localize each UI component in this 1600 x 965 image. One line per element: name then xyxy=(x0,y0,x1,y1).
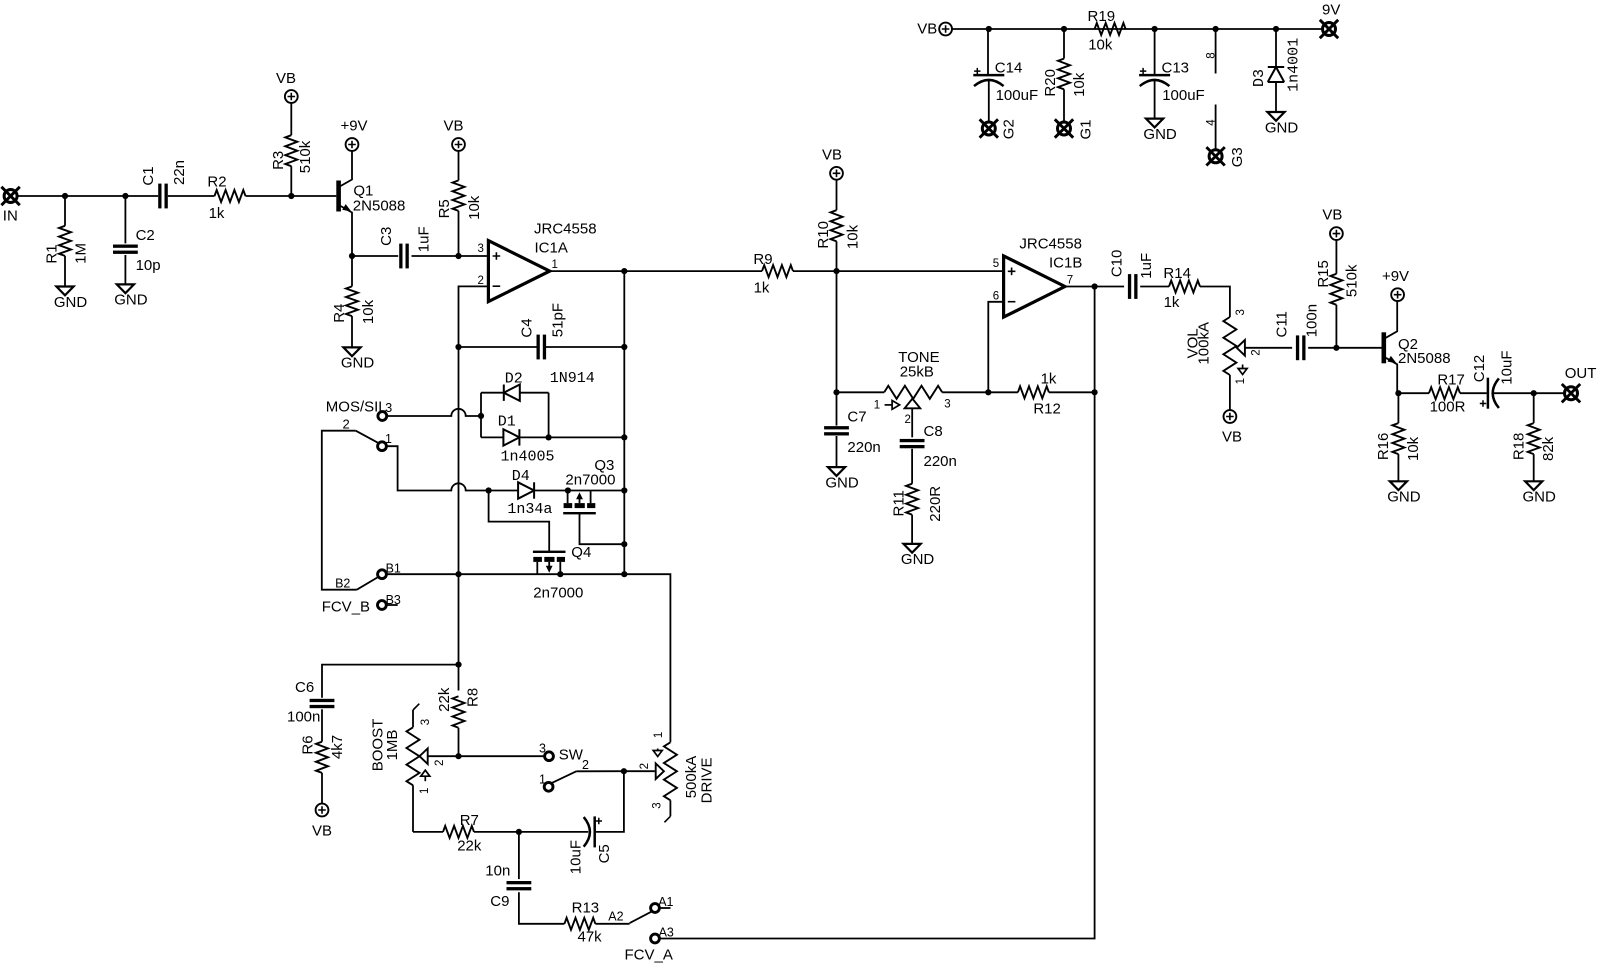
svg-text:D1: D1 xyxy=(498,414,516,431)
svg-text:22n: 22n xyxy=(171,160,188,185)
svg-text:3: 3 xyxy=(477,243,483,255)
junction node C4 left xyxy=(455,344,461,350)
svg-text:1: 1 xyxy=(653,732,665,738)
junction node Q3 source xyxy=(565,487,571,493)
IN input pad terminal xyxy=(1,187,19,225)
wire xyxy=(321,709,323,741)
svg-text:GND: GND xyxy=(341,355,375,372)
junction node B1/-in net xyxy=(455,571,461,577)
resistor R13 47k xyxy=(564,900,602,946)
wire xyxy=(1275,29,1277,67)
wire xyxy=(413,831,443,833)
wire xyxy=(1063,89,1065,122)
svg-text:1n34a: 1n34a xyxy=(507,501,552,518)
svg-text:1k: 1k xyxy=(1041,370,1057,387)
svg-text:FCV_A: FCV_A xyxy=(625,947,673,964)
svg-text:25kB: 25kB xyxy=(900,364,934,381)
junction node pin8 stub xyxy=(1213,26,1219,32)
svg-text:R10: R10 xyxy=(815,221,832,249)
wire xyxy=(1063,29,1065,59)
svg-text:VB: VB xyxy=(1322,207,1342,224)
svg-text:10k: 10k xyxy=(360,299,377,324)
svg-text:3: 3 xyxy=(944,399,950,411)
wire xyxy=(352,255,398,257)
wire diode box right vertical xyxy=(548,393,550,438)
diode D4 1n34a xyxy=(507,468,552,518)
+9V power terminal above Q2 xyxy=(1382,268,1409,301)
svg-text:C14: C14 xyxy=(995,60,1023,77)
svg-text:3: 3 xyxy=(652,802,664,808)
svg-text:2: 2 xyxy=(477,275,483,287)
junction node TONE3/R12/IC1B -in xyxy=(985,389,991,395)
wire R12 row xyxy=(988,391,1018,393)
svg-text:22k: 22k xyxy=(457,837,482,854)
junction node IC1B out xyxy=(1092,283,1098,289)
svg-text:R3: R3 xyxy=(270,151,287,170)
wire Q3 gate xyxy=(580,512,625,544)
capacitor C10 1uF xyxy=(1109,250,1156,299)
svg-text:VB: VB xyxy=(276,70,296,87)
svg-text:R1: R1 xyxy=(43,244,60,263)
wire pin1 to D4 with hop xyxy=(386,446,488,490)
svg-text:JRC4558: JRC4558 xyxy=(1019,236,1082,253)
svg-text:R9: R9 xyxy=(753,251,772,268)
wire xyxy=(942,391,988,393)
G2 pad terminal xyxy=(980,119,1018,139)
resistor R6 4k7 xyxy=(300,735,347,773)
switch FCV_A lever A2 xyxy=(608,910,651,924)
resistor R5 10k xyxy=(436,151,483,256)
svg-text:100kA: 100kA xyxy=(1196,322,1213,365)
wire xyxy=(518,832,520,879)
switch FCV_A pin A3 xyxy=(625,926,674,964)
wire xyxy=(793,270,1004,272)
wire xyxy=(1460,392,1487,394)
VB power terminal supply rail xyxy=(917,21,952,38)
wire xyxy=(549,436,625,438)
svg-text:C6: C6 xyxy=(295,679,314,696)
wire Q4 gate xyxy=(489,491,550,552)
junction node D1 wire/rail xyxy=(621,434,627,440)
svg-text:10k: 10k xyxy=(1071,72,1088,97)
svg-text:C7: C7 xyxy=(847,409,866,426)
wire xyxy=(624,270,762,272)
svg-text:IN: IN xyxy=(3,208,18,225)
svg-text:1n4001: 1n4001 xyxy=(1286,38,1303,92)
wire op-amp output xyxy=(550,270,625,272)
svg-text:R19: R19 xyxy=(1088,8,1116,25)
wire xyxy=(519,892,565,924)
wire IC1B -in xyxy=(988,302,1003,393)
svg-text:2: 2 xyxy=(582,758,589,772)
svg-text:C4: C4 xyxy=(518,318,535,337)
wire xyxy=(911,515,913,544)
wire xyxy=(568,490,591,492)
wire xyxy=(988,80,990,122)
svg-text:R20: R20 xyxy=(1042,69,1059,97)
svg-text:2: 2 xyxy=(434,760,446,766)
svg-text:1uF: 1uF xyxy=(416,226,433,252)
IC power pin 4 stub xyxy=(1205,105,1217,151)
wire xyxy=(596,771,624,832)
svg-text:SW: SW xyxy=(559,746,584,763)
svg-text:GND: GND xyxy=(54,294,88,311)
wire BOOST wiper xyxy=(428,755,545,757)
op-amp IC1A JRC4558 xyxy=(477,221,596,302)
wire xyxy=(458,728,460,756)
svg-text:8: 8 xyxy=(1205,52,1217,58)
svg-text:GND: GND xyxy=(114,292,148,309)
resistor R14 1k xyxy=(1163,265,1200,311)
junction node IC1A out xyxy=(621,268,627,274)
wire xyxy=(481,436,503,438)
switch MOS/SIL pin 3 xyxy=(326,399,392,421)
svg-text:VB: VB xyxy=(312,822,332,839)
junction node R5/op-amp +in xyxy=(455,253,461,259)
svg-text:D3: D3 xyxy=(1251,69,1268,87)
svg-text:1M: 1M xyxy=(73,243,90,264)
resistor R20 10k xyxy=(1042,59,1088,97)
resistor R4 10k xyxy=(331,256,377,347)
diode D2 1N914 xyxy=(504,370,595,401)
ground below C2 xyxy=(114,284,148,308)
resistor R10 10k xyxy=(815,180,861,271)
wire FCV_A to tone stage xyxy=(659,287,1094,939)
svg-text:3: 3 xyxy=(1235,309,1247,315)
svg-text:C8: C8 xyxy=(924,423,943,440)
svg-text:3: 3 xyxy=(420,719,432,725)
wire xyxy=(17,195,158,197)
svg-text:10k: 10k xyxy=(1405,436,1422,461)
capacitor C8 220n xyxy=(900,423,957,470)
junction node rail/Q4 wire xyxy=(621,571,627,577)
switch FCV_A pin A1 xyxy=(651,895,674,912)
VB power terminal above R10 xyxy=(822,146,843,179)
svg-text:G1: G1 xyxy=(1078,119,1095,139)
G3 pad terminal xyxy=(1206,147,1246,167)
svg-text:2N5088: 2N5088 xyxy=(353,198,406,215)
ground below R16 xyxy=(1387,481,1421,505)
junction node switch3/diode box xyxy=(478,413,484,419)
svg-text:510k: 510k xyxy=(297,140,314,173)
switch FCV_B lever B1-B2 xyxy=(335,562,401,591)
svg-text:D2: D2 xyxy=(505,370,523,387)
svg-text:C13: C13 xyxy=(1162,60,1190,77)
junction node D1/box right xyxy=(546,434,552,440)
svg-text:10n: 10n xyxy=(485,863,510,880)
transistor Q2 2N5088 xyxy=(1382,301,1451,393)
ground below R1 xyxy=(54,287,88,311)
svg-text:1k: 1k xyxy=(1164,294,1180,311)
wire xyxy=(836,436,838,467)
wire op-amp inverting input xyxy=(459,286,489,347)
svg-text:1: 1 xyxy=(1235,378,1247,384)
svg-text:220n: 220n xyxy=(847,439,880,456)
junction node C6 tee xyxy=(455,662,461,668)
wire xyxy=(520,392,549,394)
svg-text:C11: C11 xyxy=(1274,311,1291,337)
wire xyxy=(459,346,538,348)
capacitor C9 10n xyxy=(485,863,531,910)
svg-text:R14: R14 xyxy=(1163,265,1191,282)
svg-text:1N914: 1N914 xyxy=(550,370,595,387)
svg-text:2n7000: 2n7000 xyxy=(533,585,583,602)
9V pad terminal xyxy=(1320,1,1341,38)
transistor Q4 2n7000 xyxy=(533,544,591,602)
svg-text:C12: C12 xyxy=(1471,355,1488,383)
svg-text:10k: 10k xyxy=(844,224,861,249)
svg-text:100uF: 100uF xyxy=(996,87,1039,104)
svg-text:R16: R16 xyxy=(1375,433,1392,461)
junction node C12/R18/OUT xyxy=(1531,390,1537,396)
svg-text:10uF: 10uF xyxy=(568,840,585,874)
wire xyxy=(168,195,215,197)
svg-text:GND: GND xyxy=(901,551,935,568)
capacitor C12 10uF electrolytic xyxy=(1471,350,1516,408)
svg-text:Q4: Q4 xyxy=(571,544,591,561)
svg-text:1k: 1k xyxy=(209,205,225,222)
resistor R19 10k xyxy=(1088,8,1126,54)
wire Q3 drain xyxy=(591,490,624,492)
wire with hop xyxy=(387,409,481,416)
svg-text:C2: C2 xyxy=(136,227,155,244)
svg-text:DRIVE: DRIVE xyxy=(698,757,715,803)
switch SW lever pin1-pin2 xyxy=(539,758,624,791)
junction node input/C2 xyxy=(122,193,128,199)
wire xyxy=(1229,375,1231,410)
wire feedback rail xyxy=(623,271,625,574)
svg-text:GND: GND xyxy=(1387,489,1421,506)
potentiometer VOL 100kA xyxy=(1185,309,1263,384)
wire diode box left vertical xyxy=(480,393,482,438)
svg-text:R6: R6 xyxy=(300,735,317,754)
svg-text:2: 2 xyxy=(343,416,350,431)
wire xyxy=(911,449,913,484)
wire xyxy=(474,831,588,833)
svg-text:100n: 100n xyxy=(1303,304,1320,337)
wire xyxy=(595,923,629,925)
svg-text:R5: R5 xyxy=(436,199,453,218)
svg-text:4k7: 4k7 xyxy=(329,735,346,759)
svg-text:C5: C5 xyxy=(596,844,613,863)
wire xyxy=(412,255,489,257)
junction node C11/R15/Q2 base xyxy=(1333,345,1339,351)
resistor R11 220R xyxy=(891,484,944,522)
svg-text:2: 2 xyxy=(639,763,651,769)
svg-text:B2: B2 xyxy=(335,576,350,590)
capacitor C2 10p xyxy=(113,196,161,284)
svg-text:GND: GND xyxy=(1143,126,1177,143)
capacitor C14 100uF electrolytic xyxy=(973,60,1038,104)
svg-text:GND: GND xyxy=(1523,489,1557,506)
wire TONE wiper xyxy=(911,408,913,437)
resistor R2 1k xyxy=(207,174,245,222)
wire xyxy=(1154,29,1156,75)
svg-text:R18: R18 xyxy=(1510,433,1527,461)
switch FCV_B pin B3 xyxy=(322,593,401,616)
capacitor C7 220n xyxy=(824,409,881,457)
capacitor C4 51pF xyxy=(518,303,567,359)
resistor R3 510k xyxy=(270,103,314,196)
svg-text:GND: GND xyxy=(825,474,859,491)
svg-text:6: 6 xyxy=(993,291,999,303)
wire supply rail xyxy=(952,28,1323,30)
resistor R16 10k xyxy=(1375,393,1422,481)
switch MOS/SIL lever and pole wire xyxy=(322,416,392,589)
svg-text:82k: 82k xyxy=(1540,436,1557,461)
svg-text:R2: R2 xyxy=(207,174,226,191)
svg-text:GND: GND xyxy=(1265,119,1299,136)
wire xyxy=(1308,347,1381,349)
svg-text:IC1B: IC1B xyxy=(1049,254,1082,271)
svg-text:22k: 22k xyxy=(436,687,453,712)
svg-text:A2: A2 xyxy=(608,910,623,924)
wire xyxy=(1154,80,1156,119)
svg-text:R7: R7 xyxy=(460,812,479,829)
junction node C4 right xyxy=(621,344,627,350)
ground below R18 xyxy=(1523,481,1557,505)
svg-text:D4: D4 xyxy=(512,468,530,485)
wire xyxy=(481,392,504,394)
junction node Q2 emitter xyxy=(1395,390,1401,396)
svg-text:+9V: +9V xyxy=(1382,268,1409,285)
svg-text:IC1A: IC1A xyxy=(535,239,568,256)
svg-text:220n: 220n xyxy=(924,453,957,470)
wire xyxy=(519,436,548,438)
svg-text:5: 5 xyxy=(993,258,999,270)
wire IC1B output xyxy=(1065,286,1124,288)
svg-text:VB: VB xyxy=(822,146,842,163)
wire xyxy=(1275,82,1277,112)
wire xyxy=(624,770,655,772)
resistor R9 1k xyxy=(753,251,793,296)
junction node D3 xyxy=(1273,26,1279,32)
transistor Q3 2n7000 xyxy=(563,457,615,515)
svg-text:9V: 9V xyxy=(1322,1,1340,18)
svg-text:C9: C9 xyxy=(490,893,509,910)
junction node R8/BOOST wiper xyxy=(455,753,461,759)
junction node input/R1 xyxy=(62,193,68,199)
resistor R1 1M xyxy=(43,196,89,287)
resistor R12 1k xyxy=(1018,370,1061,417)
capacitor C6 100n xyxy=(287,679,334,726)
op-amp IC1B JRC4558 xyxy=(993,236,1083,318)
svg-text:1: 1 xyxy=(874,399,880,411)
junction node R2/R3/Q1 base xyxy=(288,193,294,199)
diode D3 1n4001 xyxy=(1251,38,1303,92)
capacitor C3 1uF xyxy=(378,226,433,268)
capacitor C11 100n xyxy=(1274,304,1321,360)
junction node tone input xyxy=(833,389,839,395)
wire xyxy=(246,195,337,197)
svg-text:1k: 1k xyxy=(754,279,770,296)
wire -in net vertical xyxy=(458,347,460,691)
svg-text:500kA: 500kA xyxy=(683,756,700,799)
wire xyxy=(534,490,568,492)
svg-text:JRC4558: JRC4558 xyxy=(534,221,597,238)
svg-text:VB: VB xyxy=(443,118,463,135)
wire xyxy=(987,29,989,75)
svg-text:R11: R11 xyxy=(891,490,908,516)
svg-text:2: 2 xyxy=(1251,349,1263,355)
G1 pad terminal xyxy=(1055,119,1095,139)
wire xyxy=(322,665,459,698)
VB power terminal below VOL xyxy=(1222,410,1242,445)
resistor R8 22k xyxy=(436,687,482,728)
capacitor C13 100uF electrolytic xyxy=(1139,60,1205,104)
potentiometer BOOST 1MB xyxy=(369,704,446,832)
wire xyxy=(836,271,838,392)
junction node C13 xyxy=(1152,26,1158,32)
svg-text:100R: 100R xyxy=(1430,398,1466,415)
svg-text:2n7000: 2n7000 xyxy=(565,471,615,488)
junction node R20 xyxy=(1061,26,1067,32)
ground below C13 xyxy=(1143,119,1177,143)
svg-text:VB: VB xyxy=(1222,428,1242,445)
wire xyxy=(1494,392,1565,394)
svg-text:R8: R8 xyxy=(465,688,482,707)
svg-text:10k: 10k xyxy=(466,195,483,220)
svg-text:C3: C3 xyxy=(378,227,395,246)
wire xyxy=(321,773,323,804)
capacitor C1 22n xyxy=(140,160,188,208)
junction node R7/C5/C9 xyxy=(516,829,522,835)
svg-text:51pF: 51pF xyxy=(550,303,567,337)
svg-text:1n4005: 1n4005 xyxy=(501,449,555,466)
ground below D3 xyxy=(1265,112,1299,136)
svg-text:220R: 220R xyxy=(927,486,944,522)
svg-text:R17: R17 xyxy=(1437,371,1465,388)
wire xyxy=(546,346,625,348)
ground below R11 xyxy=(901,544,935,568)
resistor R18 82k xyxy=(1510,393,1557,481)
svg-text:10k: 10k xyxy=(1088,37,1113,54)
svg-text:+9V: +9V xyxy=(340,118,367,135)
transistor Q1 2N5088 xyxy=(336,151,405,256)
VB power terminal above R5 xyxy=(443,118,464,151)
svg-text:OUT: OUT xyxy=(1565,365,1597,382)
VB power terminal above R15 xyxy=(1322,207,1342,240)
wire xyxy=(1398,392,1429,394)
svg-text:C10: C10 xyxy=(1109,250,1126,278)
svg-text:R13: R13 xyxy=(572,900,600,917)
wire B1 row xyxy=(386,574,670,742)
svg-text:FCV_B: FCV_B xyxy=(322,599,370,616)
IC power pin 8 stub xyxy=(1205,29,1217,74)
capacitor C5 10uF electrolytic xyxy=(568,816,614,874)
VB power terminal below R6 xyxy=(312,804,332,840)
svg-text:G3: G3 xyxy=(1229,147,1246,167)
junction node R12/FCV_A rail xyxy=(1092,389,1098,395)
OUT output pad terminal xyxy=(1562,365,1597,402)
svg-text:2N5088: 2N5088 xyxy=(1398,350,1451,367)
svg-text:1MB: 1MB xyxy=(384,730,401,761)
junction node Q1 emitter xyxy=(349,253,355,259)
potentiometer DRIVE 500kA xyxy=(639,732,715,823)
junction node R9/R10/IC1B +in xyxy=(833,268,839,274)
svg-text:4: 4 xyxy=(1205,119,1217,126)
svg-text:1: 1 xyxy=(552,259,558,271)
svg-text:R15: R15 xyxy=(1315,260,1332,288)
wire xyxy=(836,392,838,425)
svg-text:A3: A3 xyxy=(659,926,674,940)
junction node Q3 gate/rail xyxy=(621,541,627,547)
potentiometer TONE 25kB xyxy=(874,349,951,426)
svg-text:100n: 100n xyxy=(287,709,320,726)
VB power terminal above R3 xyxy=(276,70,298,103)
wire xyxy=(489,490,518,492)
svg-text:R4: R4 xyxy=(331,304,348,323)
